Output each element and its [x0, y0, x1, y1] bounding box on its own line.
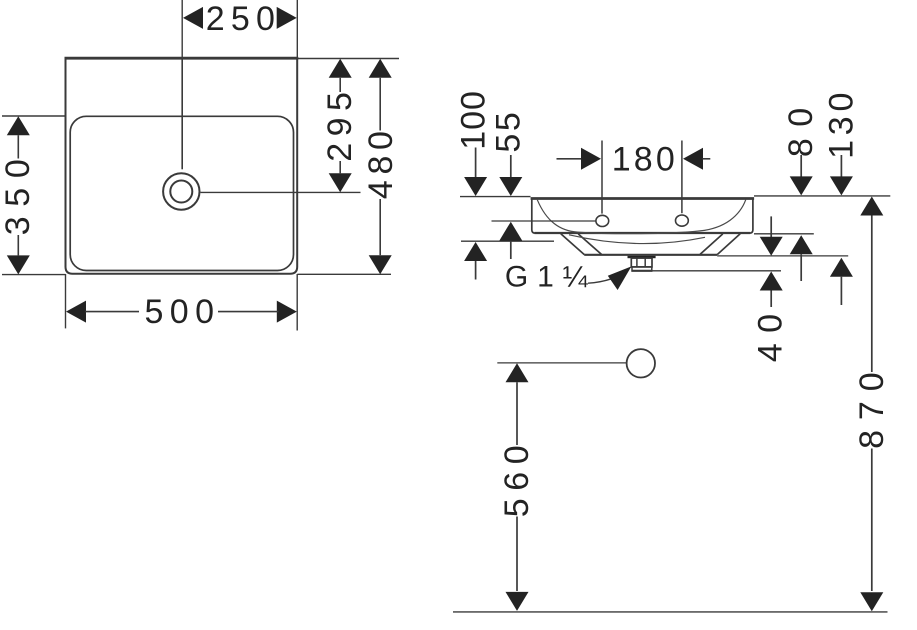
dim 80 stem lower: [800, 254, 802, 281]
dim 80 stem upper: [800, 155, 802, 177]
faucet hole right: [676, 215, 689, 226]
dim 80 label: [782, 96, 820, 157]
dim 55 arrow up: [499, 222, 522, 241]
dim 100 arrow down: [464, 177, 487, 196]
dim 180 stem right: [703, 158, 711, 160]
dim 40 label: [751, 304, 789, 363]
dim 180 label: [612, 140, 678, 178]
dim 295 arrow down: [329, 173, 352, 192]
basin inner bowl rim (plan view): [70, 116, 293, 270]
dim 560 stem upper: [516, 382, 518, 445]
dim 250 arrow left: [183, 7, 203, 29]
dim 130 stem upper: [840, 155, 842, 177]
drain nut cup: [632, 267, 653, 271]
dim 130 arrow up: [830, 258, 853, 277]
dim 250 extension line left: [181, 0, 183, 57]
dim 295 label: [321, 86, 359, 162]
floor line: [453, 611, 888, 613]
dim 560 arrow up: [506, 363, 529, 382]
apron level line: [461, 240, 554, 242]
dim 130 arrow down: [830, 176, 853, 195]
dim 40 arrow up: [760, 272, 783, 291]
underside bowl curve: [569, 235, 705, 244]
svg-text:480: 480: [362, 125, 400, 199]
dim 350 extension line bottom: [2, 274, 66, 276]
dim 295 arrow up: [329, 59, 352, 78]
drain bottom level line: [632, 270, 781, 272]
dim 55 arrow down: [499, 177, 522, 196]
dim 480 arrow up: [369, 59, 392, 78]
underside outer slant left: [561, 234, 585, 255]
dim 560 label: [498, 438, 536, 518]
dim 350 stem upper: [17, 135, 19, 158]
svg-text:560: 560: [498, 438, 536, 518]
dim 180 stem left: [557, 158, 582, 160]
waste outlet circle: [627, 349, 655, 377]
dim 500 stem right: [218, 311, 279, 313]
svg-text:295: 295: [321, 86, 359, 162]
svg-text:100: 100: [455, 90, 493, 150]
dim 250 label: [206, 0, 281, 38]
dim 870 arrow down: [860, 592, 883, 611]
dim 100 stem upper: [475, 148, 477, 178]
dim 180 arrow left: [683, 148, 703, 170]
basin outer body (plan view): [65, 58, 299, 274]
dim 55 stem upper: [510, 155, 512, 177]
G 1 1/4 arrow: [608, 266, 632, 290]
dim 500 arrow right: [277, 301, 297, 323]
dim 480 arrow down: [369, 255, 392, 274]
dim 40 stem upper: [770, 216, 772, 237]
drain centre leader line: [201, 191, 361, 193]
dim 870 stem upper: [871, 216, 873, 373]
vertical centreline to drain: [181, 58, 183, 169]
hole level line: [492, 220, 596, 222]
G 1 1/4 leader: [588, 279, 612, 283]
dim 180 arrow right: [581, 148, 601, 170]
dim 350 extension line top: [2, 115, 66, 117]
dim 480 stem lower: [379, 199, 381, 255]
dim 350 arrow down: [7, 255, 30, 274]
drain outer circle (plan view): [163, 173, 199, 209]
dim 350 label: [0, 149, 37, 235]
dim 40 arrow down: [760, 237, 783, 256]
svg-text:870: 870: [853, 362, 891, 448]
dim 295 stem upper: [339, 78, 341, 92]
dim 480 extension line bottom: [297, 273, 391, 275]
dim 500 extension line left: [65, 274, 67, 328]
svg-text:350: 350: [0, 149, 37, 235]
dim 500 extension line right: [296, 274, 298, 331]
dim 55 label: [490, 110, 528, 153]
svg-text:80: 80: [782, 96, 820, 157]
bowl interior curve (side view): [537, 200, 746, 234]
label G 1 1/4: [505, 260, 589, 293]
svg-text:180: 180: [612, 140, 678, 178]
dim 100 label: [455, 90, 493, 150]
dim 80 arrow down: [790, 176, 813, 195]
dim 295 stem lower: [339, 161, 341, 173]
dim 350 stem lower: [17, 235, 19, 255]
underside inner slant right: [700, 234, 723, 255]
dim 80 arrow up: [790, 235, 813, 254]
svg-text:250: 250: [206, 0, 281, 38]
dim 130 stem lower: [840, 277, 842, 305]
svg-text:500: 500: [144, 293, 220, 331]
dim 350 arrow up: [7, 116, 30, 135]
dim 250 arrow right: [277, 7, 297, 29]
outlet level line: [497, 362, 626, 364]
rim bottom right ext: [754, 233, 814, 235]
drain flange: [628, 256, 656, 258]
dim 500 label: [144, 293, 220, 331]
drain inner circle (plan view): [170, 181, 192, 203]
svg-text:130: 130: [822, 88, 860, 159]
faucet hole left: [596, 215, 609, 226]
dim 295 extension line top: [297, 58, 399, 60]
rim top line right ext: [754, 195, 890, 197]
hole centreline right: [681, 141, 683, 214]
svg-text:G 1 ¼: G 1 ¼: [505, 260, 589, 293]
rim top line left ext: [460, 196, 531, 198]
dim 40 stem lower: [770, 291, 772, 308]
dim 500 arrow left: [66, 301, 86, 323]
hole centreline left: [601, 141, 603, 214]
dim 560 stem lower: [516, 517, 518, 592]
dim 100 stem lower: [475, 261, 477, 280]
dim 130 label: [822, 88, 860, 159]
dim 560 arrow down: [506, 592, 529, 611]
dim 55 stem lower: [510, 241, 512, 259]
dim 870 arrow up: [860, 197, 883, 216]
dim 480 label: [362, 125, 400, 199]
underside outer slant right: [717, 234, 740, 255]
dim 500 stem left: [85, 311, 139, 313]
basin bottom edge: [584, 254, 717, 256]
dim 870 stem lower: [871, 449, 873, 592]
dim 100 arrow up: [464, 242, 487, 261]
dim 480 stem upper: [379, 78, 381, 131]
svg-text:55: 55: [490, 110, 528, 153]
dim 870 label: [853, 362, 891, 448]
underside inner slant left: [578, 234, 601, 255]
dim 250 extension line right: [296, 0, 298, 57]
svg-text:40: 40: [751, 304, 789, 363]
basin bottom right ext: [717, 255, 848, 257]
basin rim box (side view): [531, 199, 755, 234]
drain threaded body: [631, 258, 652, 267]
